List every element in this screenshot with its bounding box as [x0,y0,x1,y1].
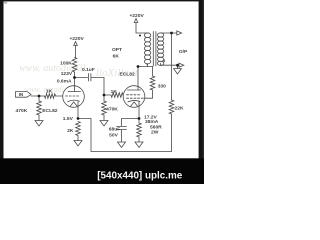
svg-text:1K: 1K [46,89,53,95]
svg-text:123V: 123V [61,71,73,77]
svg-text:68uF: 68uF [109,127,120,133]
svg-text:1.5V: 1.5V [63,116,74,122]
svg-text:100K: 100K [60,60,72,66]
svg-text:1K: 1K [111,89,118,95]
svg-text:6K: 6K [113,53,120,59]
svg-text:2K: 2K [67,128,74,134]
svg-text:www. autodi: www. autodi [24,85,64,94]
svg-text:IN: IN [19,92,23,97]
svg-text:ECL82: ECL82 [119,71,135,77]
svg-text:470K: 470K [106,107,118,113]
svg-text:ECL82: ECL82 [42,108,58,114]
svg-text:560R: 560R [150,124,162,130]
svg-text:O/P: O/P [179,49,188,55]
svg-text:0.1uF: 0.1uF [82,67,95,73]
svg-text:470K: 470K [16,108,28,114]
svg-text:+220V: +220V [129,13,144,19]
svg-text:2W: 2W [151,130,159,136]
svg-text:+220V: +220V [69,36,84,42]
svg-text:50V: 50V [109,132,118,138]
svg-text:OPT: OPT [112,47,122,53]
svg-text:0.6mA: 0.6mA [57,78,72,84]
svg-text:38mA: 38mA [145,119,159,125]
svg-text:[540x440] uplc.me: [540x440] uplc.me [97,171,183,182]
svg-text:22K: 22K [175,105,184,111]
svg-text:330: 330 [158,83,166,89]
